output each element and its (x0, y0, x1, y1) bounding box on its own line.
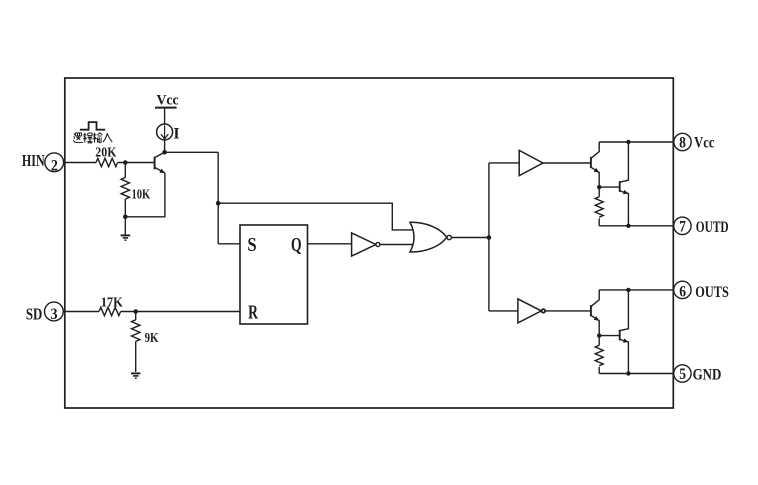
svg-text:OUTS: OUTS (695, 284, 729, 302)
svg-text:Vcc: Vcc (157, 92, 179, 108)
svg-text:2: 2 (51, 158, 58, 175)
svg-text:I: I (173, 126, 179, 143)
svg-text:10K: 10K (132, 186, 151, 202)
svg-text:S: S (247, 233, 256, 255)
svg-text:5: 5 (679, 366, 686, 383)
svg-text:R: R (248, 301, 258, 323)
svg-text:3: 3 (51, 306, 58, 323)
svg-text:HIN: HIN (22, 152, 45, 170)
svg-text:8: 8 (679, 135, 686, 152)
svg-text:Q: Q (291, 233, 302, 255)
svg-text:9K: 9K (145, 329, 159, 345)
svg-text:17K: 17K (101, 294, 124, 310)
svg-text:7: 7 (679, 218, 686, 235)
svg-text:20K: 20K (95, 144, 116, 160)
svg-text:GND: GND (693, 366, 722, 384)
svg-text:Vcc: Vcc (694, 134, 715, 152)
svg-text:6: 6 (679, 283, 686, 300)
svg-text:SD: SD (26, 306, 42, 324)
svg-text:OUTD: OUTD (696, 219, 729, 236)
